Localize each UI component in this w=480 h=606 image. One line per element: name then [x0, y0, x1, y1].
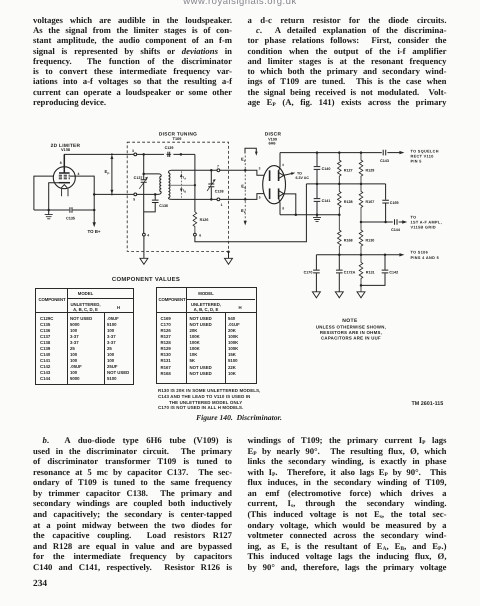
- resistor R126: [193, 212, 197, 233]
- node junction: [93, 193, 96, 196]
- pin 3: [134, 153, 137, 156]
- tube V109 envelope: [263, 166, 286, 204]
- svg-text:R127: R127: [344, 168, 353, 172]
- voltage line E1 Es E2: [244, 156, 246, 221]
- svg-text:R130: R130: [366, 238, 375, 242]
- capacitor C144: [395, 219, 398, 225]
- a-f output wire: [361, 221, 393, 223]
- capacitor C172A: [338, 255, 340, 292]
- svg-text:3: 3: [259, 167, 261, 171]
- capacitor C170: [315, 255, 317, 292]
- svg-text:1ST A-F AMPL,: 1ST A-F AMPL,: [411, 221, 442, 225]
- upper cathode to top rail: [279, 153, 280, 171]
- svg-text:C170: C170: [304, 271, 313, 275]
- tube V108 cathode: [59, 182, 70, 184]
- resistor R130: [359, 222, 363, 255]
- svg-text:S: S: [244, 186, 246, 190]
- svg-text:PINS 4 AND 5: PINS 4 AND 5: [411, 256, 440, 260]
- left component table: [35, 288, 134, 385]
- transformer shield box T109: [127, 142, 228, 251]
- ground: [48, 210, 50, 215]
- top right column: [248, 15, 447, 108]
- secondary winding: [168, 170, 171, 173]
- ground below pin 4: [143, 236, 145, 258]
- bottom right column: [248, 435, 447, 572]
- capacitor C142: [361, 255, 385, 286]
- resistor R128: [337, 184, 341, 215]
- shield ground at box corner: [227, 251, 230, 254]
- cathode bottom wire: [280, 214, 339, 216]
- svg-text:2: 2: [244, 210, 246, 214]
- svg-text:UNLESS OTHERWISE SHOWN,: UNLESS OTHERWISE SHOWN,: [316, 324, 386, 329]
- footnote under right table: [158, 388, 261, 411]
- capacitor C140: [316, 153, 318, 184]
- capacitor C136: [144, 194, 156, 212]
- lower diode cathode: [278, 188, 280, 199]
- plate wire to pin 3: [64, 153, 134, 155]
- secondary bottom rail to pin 1: [172, 198, 217, 200]
- svg-text:8: 8: [60, 161, 62, 165]
- capacitor C139: [168, 152, 170, 157]
- capacitor C138 (trimmer): [210, 170, 212, 199]
- voltage Ep arrow: [111, 157, 113, 193]
- right component table: [156, 287, 257, 385]
- cathode wire to ground: [49, 183, 59, 210]
- tube V108 grids: [59, 175, 70, 179]
- upper diode cathode: [278, 170, 280, 181]
- svg-text:1: 1: [221, 203, 223, 207]
- current arrows IA IB: [180, 171, 182, 198]
- svg-text:C143: C143: [380, 159, 389, 163]
- capacitor C141: [316, 184, 318, 215]
- pin 6: [194, 233, 197, 236]
- svg-text:A: A: [184, 178, 186, 181]
- svg-text:PIN 5: PIN 5: [411, 160, 422, 164]
- svg-text:V108: V108: [61, 147, 71, 152]
- bottom rail: [316, 254, 400, 256]
- capacitor C137 (trimmer): [143, 154, 145, 233]
- wire to B+: [93, 194, 95, 222]
- ground under C141: [316, 215, 318, 218]
- secondary top rail to pin 7: [172, 169, 217, 171]
- svg-text:C139: C139: [165, 146, 174, 150]
- svg-text:5: 5: [133, 198, 135, 202]
- grid wire to left: [34, 176, 54, 210]
- resistor R167: [359, 184, 363, 222]
- primary winding: [144, 174, 162, 176]
- svg-text:7: 7: [217, 164, 219, 168]
- label 2D LIMITER V108: [51, 143, 81, 152]
- capacitor C169: [385, 184, 387, 222]
- lower diode plate: [269, 188, 271, 199]
- svg-text:TO: TO: [411, 215, 417, 219]
- svg-text:4: 4: [282, 163, 284, 167]
- svg-text:T109: T109: [173, 137, 182, 141]
- label DISCR V109 6H6: [265, 131, 282, 145]
- note: [316, 318, 386, 341]
- tube V108 heater: [61, 185, 67, 188]
- svg-text:C140: C140: [322, 167, 331, 171]
- tube V108 envelope: [53, 167, 75, 189]
- resistor R131: [359, 255, 363, 292]
- wire pin7 to upper plate: [220, 170, 264, 175]
- svg-text:CAPACITORS ARE IN UUF: CAPACITORS ARE IN UUF: [321, 336, 381, 341]
- svg-text:6: 6: [199, 233, 201, 237]
- tube V108 plate: [59, 154, 70, 173]
- svg-text:R126: R126: [200, 218, 209, 222]
- svg-text:1: 1: [244, 159, 246, 163]
- pin 7: [217, 169, 220, 172]
- svg-text:C136: C136: [159, 204, 168, 208]
- top left column: [33, 15, 232, 108]
- svg-text:C169: C169: [390, 201, 399, 205]
- C139 drop wire to center tap: [194, 154, 196, 212]
- svg-text:4: 4: [147, 233, 149, 237]
- pin 4 wire (screen): [70, 176, 134, 194]
- svg-text:6H6: 6H6: [269, 142, 276, 146]
- svg-text:4: 4: [78, 172, 80, 176]
- pin 5: [134, 193, 137, 196]
- svg-text:R131: R131: [366, 271, 375, 275]
- wire pin1 to lower plate: [220, 194, 264, 200]
- svg-text:6.3V AC: 6.3V AC: [296, 176, 310, 180]
- resistor R127: [337, 153, 341, 184]
- capacitor C143: [383, 150, 386, 156]
- lower cathode to bottom: [279, 199, 280, 215]
- svg-text:TO: TO: [297, 172, 302, 176]
- svg-text:8: 8: [282, 207, 284, 211]
- svg-text:V115B GRID: V115B GRID: [411, 226, 436, 230]
- svg-text:C172A: C172A: [344, 271, 356, 275]
- bottom wire with C135: [34, 209, 94, 211]
- svg-text:B: B: [184, 191, 186, 194]
- lower heater exit: [284, 194, 296, 215]
- upper diode plate: [269, 170, 271, 181]
- pin 1: [217, 198, 220, 201]
- svg-text:RESISTORS ARE IN OHMS,: RESISTORS ARE IN OHMS,: [320, 330, 382, 335]
- heater tap to 6.3V AC: [284, 173, 292, 175]
- svg-text:C141: C141: [322, 199, 331, 203]
- svg-text:5: 5: [259, 195, 261, 199]
- mid rail: [306, 183, 385, 185]
- svg-text:R167: R167: [366, 200, 375, 204]
- capacitor C135: [70, 207, 72, 212]
- svg-text:C138: C138: [215, 189, 224, 193]
- svg-text:C144: C144: [391, 228, 401, 232]
- svg-text:P: P: [107, 171, 109, 175]
- svg-text:R129: R129: [366, 168, 375, 172]
- svg-text:C135: C135: [66, 217, 75, 221]
- voltage bracket E1: [245, 148, 256, 153]
- svg-text:3: 3: [132, 149, 134, 153]
- top wire in box: [137, 153, 195, 155]
- svg-text:R128: R128: [344, 200, 353, 204]
- top rail: [280, 152, 382, 154]
- svg-text:RECT V110: RECT V110: [411, 154, 434, 158]
- svg-text:C137: C137: [134, 176, 143, 180]
- bottom left column: [33, 435, 232, 572]
- svg-text:NOTE: NOTE: [342, 318, 358, 324]
- resistor R168: [337, 215, 341, 255]
- svg-text:TO B+: TO B+: [88, 229, 101, 234]
- center tap: [170, 184, 195, 186]
- resistor R129: [359, 153, 363, 184]
- svg-text:TO S106: TO S106: [411, 250, 429, 254]
- pin 4 of T109: [143, 233, 146, 236]
- svg-text:R168: R168: [344, 238, 353, 242]
- wire pin6 to mid rail: [195, 184, 307, 242]
- svg-text:TO SQUELCH: TO SQUELCH: [411, 149, 439, 153]
- svg-text:C142: C142: [389, 271, 398, 275]
